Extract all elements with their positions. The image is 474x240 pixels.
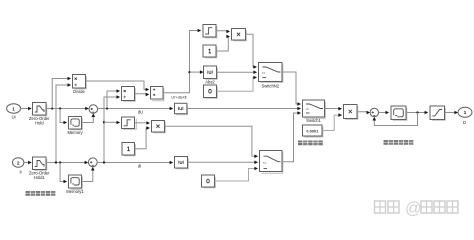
node junction feedback xyxy=(416,111,418,113)
wire Constant2 to SwitchN3 in3 xyxy=(215,167,259,181)
svg-text:@: @ xyxy=(405,200,422,218)
node junction U to Divide xyxy=(51,107,53,109)
block Divide1 xyxy=(122,87,136,102)
wire Memory2 out to Saturation xyxy=(406,111,428,115)
wire dI line Sum2 to Abs3 xyxy=(97,161,173,165)
block Abs dU xyxy=(175,103,188,114)
inport I2 oval xyxy=(13,158,24,175)
wire ZOH1 out to Sum2 xyxy=(46,161,88,165)
svg-text:dI: dI xyxy=(138,164,142,169)
block Add xyxy=(151,87,164,101)
wire Sign1 to Product1 xyxy=(135,121,151,125)
label step Chinese xyxy=(298,141,323,146)
svg-text:Ui'+dU/dt: Ui'+dU/dt xyxy=(171,96,186,100)
block Sign xyxy=(203,25,217,38)
block Memory2 xyxy=(391,106,407,120)
block Zero-Order Hold xyxy=(29,103,50,126)
block Constant 1 xyxy=(203,45,217,58)
svg-text:Memory: Memory xyxy=(67,130,83,135)
block Saturation xyxy=(430,106,445,120)
block Divide xyxy=(73,75,87,94)
outport D oval xyxy=(458,107,472,125)
wire I down to Memory1 xyxy=(60,163,67,184)
sum S3 xyxy=(370,108,378,116)
wire SwitchN3 out to Switch1 in3 xyxy=(282,111,301,162)
svg-text:Abs2: Abs2 xyxy=(205,80,215,85)
svg-text:1: 1 xyxy=(464,110,467,116)
wire Product2 to Sum3 xyxy=(357,111,370,115)
svg-text:Divide: Divide xyxy=(73,89,85,94)
sum S1 xyxy=(89,105,98,114)
block Product xyxy=(232,29,247,41)
svg-text:SwitchN2: SwitchN2 xyxy=(261,83,279,88)
wire U down to Memory xyxy=(60,109,67,125)
block Constant 1b xyxy=(122,143,135,156)
wire ZOH out to Sum1 xyxy=(46,107,89,111)
wire dI up to Divide1 divide-input xyxy=(104,95,120,162)
block Zero-Order Hold1 xyxy=(29,157,50,180)
block SwitchN3 xyxy=(260,151,283,174)
svg-text:Ui: Ui xyxy=(12,114,16,119)
block Memory1 xyxy=(66,175,84,194)
wire feedback to Sum3 bottom xyxy=(373,113,418,126)
watermark zhihu xyxy=(375,200,459,218)
block Switch1 xyxy=(303,100,326,123)
wire Memory1 out to Sum2 bottom xyxy=(82,167,95,182)
wire Switch1 out to Product2 xyxy=(325,107,343,111)
svg-text:Switch1: Switch1 xyxy=(306,118,321,123)
svg-text:2: 2 xyxy=(17,160,20,166)
block Abs2 xyxy=(204,66,218,85)
wire Divide out to Add in1 xyxy=(86,81,150,91)
svg-text:‹=: ‹= xyxy=(262,71,265,75)
wire Product out down to SwitchN2 in1 xyxy=(246,34,258,68)
inport U1 oval xyxy=(7,104,21,120)
wire U up to Divide x-input xyxy=(52,77,71,109)
wire Constant1b to Product1 in2 xyxy=(135,126,151,149)
block Constant 0 xyxy=(204,85,218,98)
wire Abs3 to SwitchN3 in2 xyxy=(188,161,259,165)
svg-text:1: 1 xyxy=(12,106,15,112)
wire Divide1 out to Add in2 xyxy=(135,93,150,97)
sum S2 xyxy=(88,158,97,167)
wire junction to Abs2 xyxy=(190,70,204,74)
node junction U to Memory xyxy=(59,107,61,109)
wire Constant0 to SwitchN2 in3 xyxy=(217,76,258,92)
node junction I to Memory1 xyxy=(59,161,61,163)
label hold Chinese xyxy=(26,191,56,196)
node junction dU up xyxy=(106,107,108,109)
node junction I up xyxy=(55,161,57,163)
wire dU line Sum1 to Abs xyxy=(98,107,174,111)
block SwitchN2 xyxy=(259,63,283,89)
svg-text:D: D xyxy=(463,120,466,125)
block Constant 0.0001 xyxy=(303,125,323,137)
wire U1 to ZOH xyxy=(21,107,32,111)
wire Abs out to Switch1 in2 xyxy=(187,107,301,111)
wire Sum3 to Memory2 xyxy=(379,111,390,115)
block Sign1 xyxy=(122,117,137,129)
wire I2 to ZOH1 xyxy=(24,161,32,165)
wire Sign to Product xyxy=(216,30,230,34)
block Constant2 0 xyxy=(202,175,216,188)
svg-text:Ii: Ii xyxy=(19,170,21,175)
wire Saturation to outport xyxy=(445,111,459,115)
label duty Chinese xyxy=(384,140,414,145)
block Memory xyxy=(67,117,83,136)
svg-text:‹=: ‹= xyxy=(263,161,266,165)
node junction to Sign1 xyxy=(103,121,105,123)
node junction dI up xyxy=(103,161,105,163)
svg-text:Memory1: Memory1 xyxy=(66,189,84,194)
block Product1 xyxy=(152,121,166,133)
node junction to Abs2 xyxy=(188,71,190,73)
wire Product1 out to SwitchN3 in1 xyxy=(165,126,259,158)
wire Add out up to Sign and Abs2 xyxy=(163,29,201,93)
wire to Sign1 xyxy=(104,121,120,125)
wire Abs2 to SwitchN2 in2 xyxy=(217,70,258,74)
svg-text:‹=: ‹= xyxy=(306,108,309,112)
wire SwitchN2 out to Switch1 in1 xyxy=(282,72,301,106)
block Product2 xyxy=(344,105,358,120)
wire Memory out to Sum1 bottom xyxy=(82,113,96,122)
wire Constant1 to Product in2 xyxy=(216,35,230,51)
wire Constant00001 to Product2 in2 xyxy=(322,113,342,130)
svg-text:Hold: Hold xyxy=(35,121,44,126)
wire dU up to Divide1 x-input xyxy=(107,89,120,108)
svg-text:0.0001: 0.0001 xyxy=(306,128,319,133)
svg-text:Hold1: Hold1 xyxy=(34,175,46,180)
wire I up to Divide divide-input xyxy=(56,83,71,162)
svg-text:dU: dU xyxy=(138,110,143,115)
block Abs3 xyxy=(175,157,189,169)
